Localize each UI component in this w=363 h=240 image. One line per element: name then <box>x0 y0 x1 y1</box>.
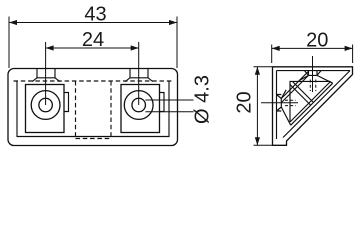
svg-text:24: 24 <box>82 29 104 51</box>
svg-text:Ø 4.3: Ø 4.3 <box>192 75 214 124</box>
svg-text:20: 20 <box>306 30 328 52</box>
svg-text:20: 20 <box>234 91 256 113</box>
svg-text:43: 43 <box>84 4 106 26</box>
